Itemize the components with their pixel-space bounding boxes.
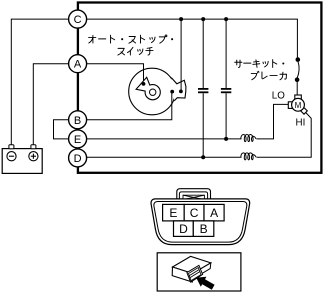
connector pin C bbox=[184, 204, 204, 221]
terminal A bbox=[69, 55, 87, 73]
auto stop switch contact dot B bbox=[170, 90, 174, 94]
auto stop switch cam hub bbox=[150, 89, 156, 95]
location icon box bbox=[157, 253, 241, 291]
junction dot C/capacitor1 bbox=[201, 17, 205, 21]
capacitor 2 lead and plates bbox=[221, 19, 231, 139]
label circuit breaker line1 bbox=[235, 60, 285, 68]
capacitor 1 lead and plates bbox=[198, 19, 208, 157]
location icon connector socket block bbox=[187, 265, 203, 282]
wire E row to motor LO bbox=[87, 138, 242, 140]
svg-text:A: A bbox=[74, 59, 82, 71]
terminal E bbox=[69, 130, 87, 148]
connector tab bowtie bbox=[183, 195, 204, 199]
wire A row to switch contact bbox=[87, 64, 144, 84]
wire B row to switch contact bbox=[87, 93, 172, 120]
svg-text:LO: LO bbox=[272, 91, 285, 102]
svg-text:M: M bbox=[295, 101, 302, 110]
auto stop switch contact dot A bbox=[142, 82, 146, 86]
connector tab bbox=[177, 189, 211, 199]
location icon arrow bbox=[196, 277, 214, 290]
control unit box bbox=[78, 3, 322, 173]
connector pin A bbox=[204, 204, 224, 221]
auto stop switch housing circle bbox=[129, 68, 176, 115]
wire battery negative to terminal C bbox=[11, 19, 68, 145]
auto stop switch contact dot C bbox=[179, 90, 183, 94]
wire D row to motor HI bbox=[87, 156, 242, 158]
svg-text:HI: HI bbox=[296, 118, 306, 129]
svg-text:C: C bbox=[74, 14, 82, 26]
connector pin B bbox=[193, 221, 214, 237]
auto stop switch cam fin bbox=[136, 77, 150, 91]
battery bbox=[2, 145, 42, 174]
location icon connector top face bbox=[173, 256, 211, 273]
svg-text:A: A bbox=[210, 206, 218, 220]
terminal D bbox=[69, 149, 87, 167]
junction dot C/switch bbox=[179, 17, 183, 21]
svg-text:E: E bbox=[169, 206, 177, 220]
auto stop switch cam body bbox=[145, 85, 160, 100]
label auto stop switch line2 bbox=[118, 47, 153, 55]
svg-text:B: B bbox=[200, 222, 208, 236]
svg-text:D: D bbox=[74, 153, 82, 165]
circuit breaker contact dots and blade bbox=[295, 57, 300, 95]
terminal B bbox=[69, 111, 87, 129]
wire C row bbox=[87, 19, 298, 58]
location icon connector end face bbox=[192, 263, 211, 279]
junction dot C/capacitor2 bbox=[224, 17, 228, 21]
inductor coil D row bbox=[241, 153, 256, 160]
svg-text:C: C bbox=[190, 206, 199, 220]
svg-text:E: E bbox=[74, 134, 81, 146]
terminal C bbox=[69, 10, 87, 28]
wire jumper terminal B to terminal E bbox=[54, 120, 69, 139]
wire battery positive to terminal A bbox=[33, 64, 68, 145]
location icon connector front face bbox=[172, 267, 193, 282]
connector pin E bbox=[163, 204, 185, 221]
svg-text:B: B bbox=[74, 115, 81, 127]
junction dot E/capacitor2 bbox=[224, 137, 228, 141]
auto stop switch right contact housing bbox=[171, 78, 186, 101]
inductor coil E row bbox=[241, 135, 256, 142]
connector body inner outline bbox=[154, 202, 247, 243]
junction dot D/capacitor1 bbox=[201, 155, 205, 159]
motor M bbox=[288, 95, 307, 114]
connector body outer outline bbox=[151, 199, 250, 245]
label circuit breaker line2 bbox=[251, 71, 286, 79]
wire C junction to switch right contact bbox=[180, 19, 182, 90]
svg-text:D: D bbox=[179, 222, 188, 236]
connector pin D bbox=[174, 221, 194, 237]
label auto stop switch line1 bbox=[89, 35, 174, 43]
